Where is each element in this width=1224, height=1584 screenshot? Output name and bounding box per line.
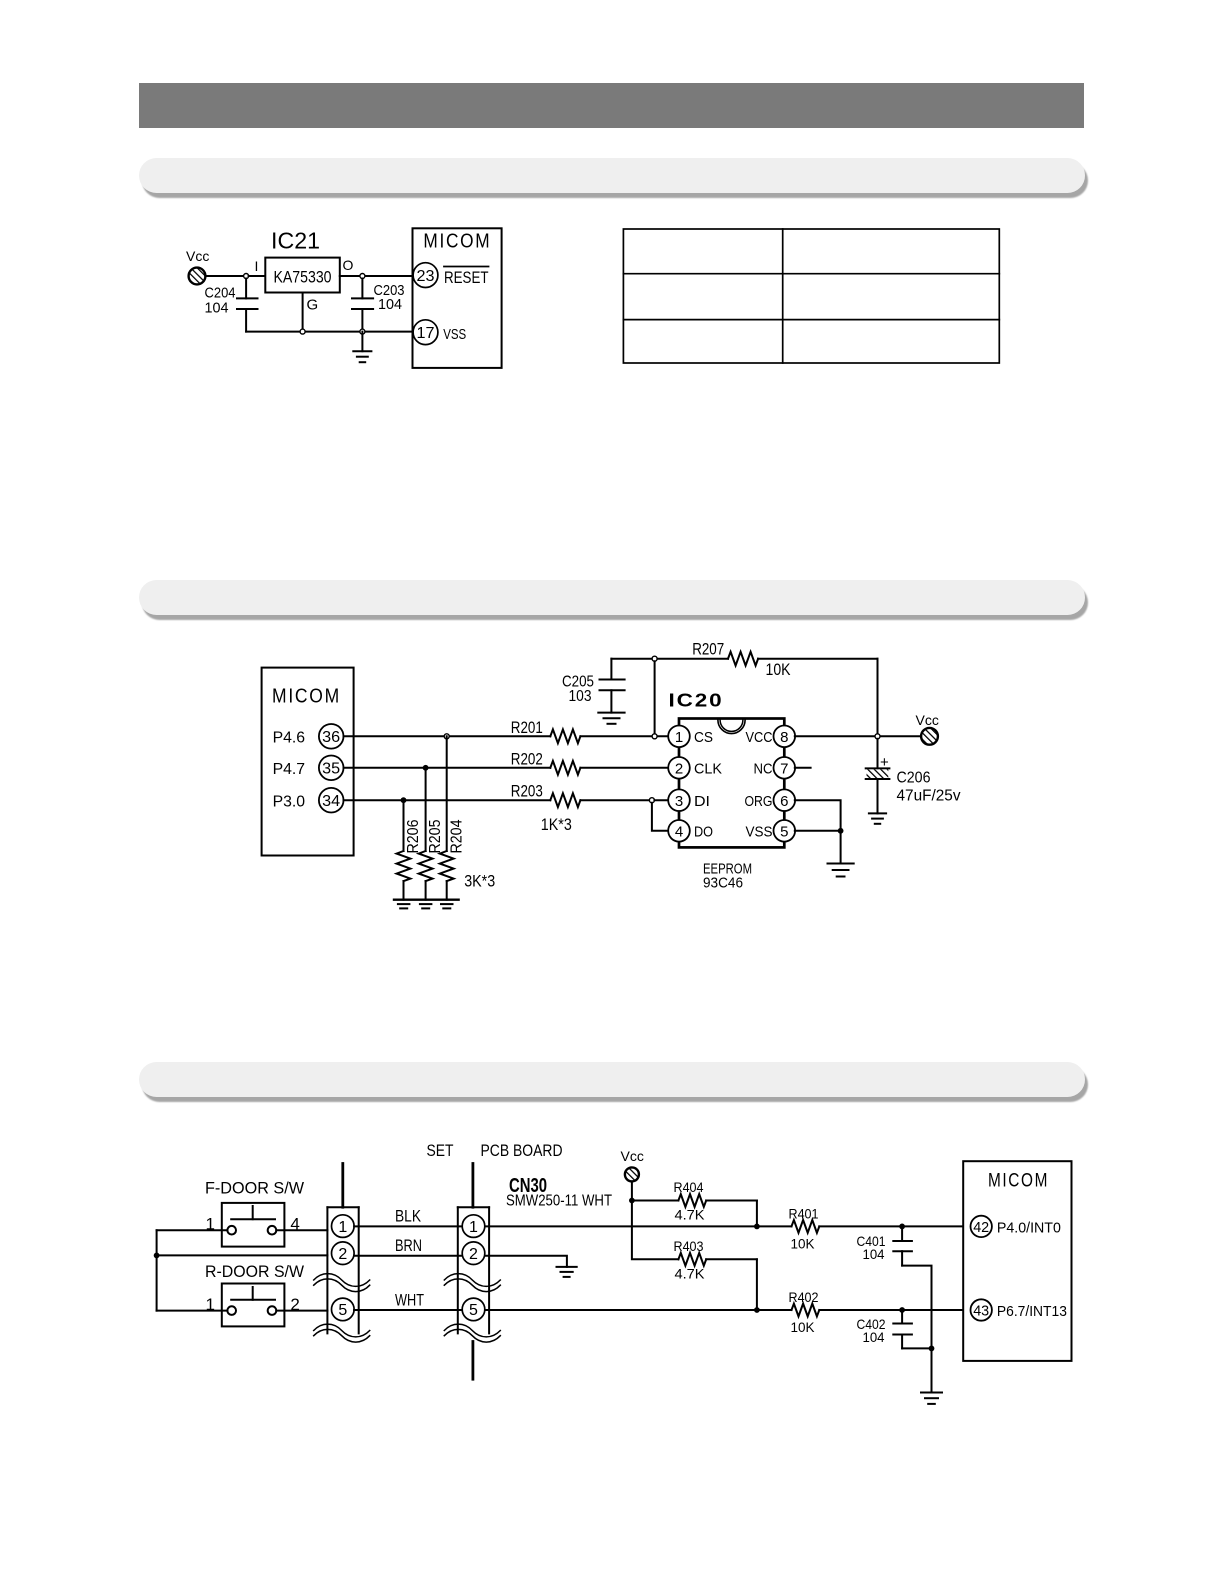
pin P3.0 (34): [273, 788, 344, 813]
svg-text:104: 104: [863, 1329, 885, 1345]
svg-text:6: 6: [780, 793, 788, 810]
svg-text:1: 1: [469, 1219, 478, 1236]
connector PCB pin 5: [462, 1298, 485, 1321]
wire BRN SET to PCB: [354, 1255, 462, 1257]
Vcc power symbol circuit2: [916, 712, 939, 745]
wire BLK PCB to R401: [485, 1225, 791, 1227]
capacitor C203: [352, 279, 405, 332]
wire P4.7 to CLK with resistor R202: [344, 761, 669, 775]
node G junction: [300, 329, 305, 334]
wire BRN to SET connector: [157, 1254, 328, 1256]
svg-text:Vcc: Vcc: [621, 1148, 644, 1164]
svg-text:5: 5: [780, 824, 788, 841]
wire C401 to ground rail: [902, 1266, 931, 1349]
wire R207 top rail: [611, 652, 877, 666]
svg-text:R205: R205: [427, 819, 444, 853]
node P3.0/R206 junction: [401, 797, 407, 803]
svg-text:P4.0/INT0: P4.0/INT0: [997, 1220, 1061, 1237]
svg-text:2: 2: [675, 761, 683, 778]
wire Vcc drop: [631, 1181, 633, 1200]
node C402 junction: [899, 1307, 905, 1313]
svg-text:4.7K: 4.7K: [675, 1207, 706, 1223]
svg-text:4.7K: 4.7K: [675, 1266, 706, 1282]
resistor R402: [789, 1289, 971, 1335]
wire P4.6 to CS with resistor R201: [344, 729, 669, 743]
svg-text:34: 34: [322, 793, 340, 810]
node CS junction: [652, 734, 657, 739]
pin 43: [971, 1299, 992, 1320]
wire DO loop to DI node: [652, 803, 669, 831]
node top rail / CS drop: [652, 656, 657, 661]
resistor R206 vertical: [397, 800, 422, 900]
ground shared below R204 R205 R206: [394, 900, 459, 909]
svg-text:CLK: CLK: [694, 761, 722, 778]
svg-text:C206: C206: [897, 770, 931, 787]
svg-text:104: 104: [205, 300, 229, 317]
wire WHT PCB to R402: [485, 1309, 791, 1311]
pin 7 NC: [754, 757, 796, 779]
svg-text:KA75330: KA75330: [274, 268, 332, 287]
wire VCC pin8 to Vcc: [795, 735, 921, 737]
connector SET pin 1: [332, 1215, 355, 1238]
node VCC junction: [875, 734, 880, 739]
svg-text:104: 104: [863, 1246, 885, 1262]
wire pull-up drop right: [877, 659, 879, 734]
resistor R205 vertical: [419, 768, 444, 900]
pin 5 VSS: [746, 820, 796, 842]
svg-text:R202: R202: [511, 750, 543, 769]
pin 42: [971, 1216, 992, 1237]
svg-text:NC: NC: [754, 761, 773, 778]
svg-text:1K*3: 1K*3: [541, 815, 572, 834]
pin 4 DO: [668, 820, 713, 842]
ground below C206: [869, 813, 886, 823]
connector PCB pin 2: [462, 1242, 485, 1265]
svg-text:103: 103: [569, 688, 592, 705]
wire IC21 output to MICOM pin23: [340, 275, 413, 277]
header bar: [139, 83, 1084, 128]
ground circuit3: [921, 1393, 942, 1404]
pin 3 DI: [668, 789, 710, 811]
connector SET side body: [327, 1164, 358, 1334]
pin 17: [413, 320, 438, 345]
svg-text:I: I: [255, 258, 259, 274]
node ground rail junction: [929, 1346, 935, 1352]
capacitor C205: [562, 659, 625, 713]
EEPROM IC20 body: [679, 719, 784, 848]
svg-text:DO: DO: [694, 824, 713, 841]
connector SET pin 5: [332, 1298, 355, 1321]
svg-text:R403: R403: [674, 1238, 704, 1254]
Vcc power symbol circuit3: [621, 1148, 644, 1181]
pin 23: [413, 263, 438, 288]
svg-text:DI: DI: [694, 793, 710, 810]
wire R-DOOR pin2 to SET connector: [276, 1310, 327, 1312]
pin 8 VCC: [746, 726, 796, 748]
connector SET pin 2: [332, 1242, 355, 1265]
node P4.7/R205 junction: [423, 765, 429, 771]
svg-text:VCC: VCC: [746, 729, 773, 746]
resistor R403: [674, 1238, 757, 1282]
switch R-DOOR S/W: [206, 1284, 300, 1327]
svg-text:MICOM: MICOM: [423, 231, 491, 253]
svg-text:10K: 10K: [791, 1319, 816, 1335]
section pill 2: [139, 580, 1085, 615]
wire ORG to VSS rail: [795, 800, 841, 828]
wire ground rail: [246, 331, 413, 333]
pin 2 CLK: [668, 757, 722, 779]
svg-text:R204: R204: [449, 819, 466, 853]
svg-text:1: 1: [338, 1219, 347, 1236]
svg-text:R404: R404: [674, 1179, 704, 1195]
capacitor C204: [205, 279, 258, 332]
wire WHT SET to PCB: [354, 1309, 462, 1311]
svg-text:17: 17: [417, 325, 435, 342]
node P4.6/R204 junction: [444, 734, 449, 739]
wire BLK SET to PCB: [354, 1225, 462, 1227]
node C401 junction: [899, 1224, 905, 1230]
svg-text:R-DOOR S/W: R-DOOR S/W: [205, 1262, 304, 1281]
svg-text:43: 43: [973, 1303, 989, 1320]
svg-text:VSS: VSS: [746, 824, 773, 841]
wire VSS to ground: [840, 834, 842, 864]
svg-text:O: O: [343, 257, 354, 273]
svg-text:R203: R203: [511, 782, 543, 801]
svg-text:104: 104: [378, 296, 402, 313]
svg-text:8: 8: [780, 729, 788, 746]
MICOM block circuit2: [262, 668, 354, 856]
svg-text:PCB BOARD: PCB BOARD: [481, 1141, 563, 1160]
wire G pin down: [302, 293, 304, 332]
wire F-DOOR pin1 to left rail: [157, 1229, 228, 1231]
svg-text:BRN: BRN: [395, 1236, 422, 1255]
svg-text:R206: R206: [405, 819, 422, 853]
Vcc power symbol: [186, 248, 209, 284]
node input junction: [244, 274, 249, 279]
svg-text:93C46: 93C46: [703, 875, 743, 892]
svg-text:P6.7/INT13: P6.7/INT13: [997, 1303, 1067, 1320]
break squiggle PCB mid: [444, 1274, 500, 1292]
wire R404 drop to BLK line: [756, 1201, 758, 1227]
wire node to IC21 input: [249, 275, 266, 277]
svg-text:R402: R402: [789, 1289, 819, 1305]
svg-text:R207: R207: [692, 640, 724, 659]
svg-text:47uF/25v: 47uF/25v: [897, 788, 961, 805]
resistor R401: [789, 1206, 971, 1252]
ground BRN: [557, 1267, 577, 1277]
switch F-DOOR S/W: [206, 1203, 300, 1247]
wire NC stub: [795, 767, 811, 769]
pin 1 CS: [668, 726, 713, 748]
wire R-DOOR pin1 to left rail: [157, 1310, 228, 1312]
svg-text:SMW250-11 WHT: SMW250-11 WHT: [506, 1193, 612, 1210]
svg-text:1: 1: [675, 729, 683, 746]
section pill 3: [139, 1062, 1085, 1097]
svg-text:IC21: IC21: [271, 228, 320, 254]
wire VSS pin5 right: [795, 830, 841, 832]
wire R403 drop to WHT line: [756, 1259, 758, 1310]
svg-text:10K: 10K: [766, 660, 792, 679]
node output junction: [360, 274, 365, 279]
capacitor C206 electrolytic: [866, 739, 961, 814]
svg-text:2: 2: [338, 1246, 347, 1263]
node VSS/ORG junction: [838, 828, 844, 834]
wire P3.0 to DI with resistor R203: [344, 793, 652, 807]
svg-text:SET: SET: [427, 1141, 454, 1160]
svg-text:5: 5: [338, 1302, 347, 1319]
wire F-DOOR pin4 to SET connector: [276, 1229, 327, 1231]
pin 6 ORG: [745, 789, 796, 811]
svg-text:R201: R201: [511, 718, 543, 737]
node Vcc/R404 junction: [629, 1198, 635, 1204]
resistor R404: [632, 1179, 757, 1223]
node DI/DO junction: [649, 798, 654, 803]
MICOM block circuit3: [963, 1161, 1071, 1361]
regulator IC21 KA75330 body: [265, 258, 340, 293]
wire ground rail down: [931, 1348, 933, 1392]
section pill 1: [139, 158, 1085, 193]
svg-text:Vcc: Vcc: [916, 712, 939, 728]
connector PCB pin 1: [462, 1215, 485, 1238]
svg-text:G: G: [307, 297, 319, 314]
node R404/BLK junction: [754, 1224, 760, 1230]
svg-text:2: 2: [469, 1246, 478, 1263]
wire CS pull-up drop: [654, 661, 656, 734]
node R403/WHT junction: [754, 1307, 760, 1313]
svg-text:7: 7: [780, 761, 788, 778]
svg-text:P3.0: P3.0: [273, 794, 306, 811]
svg-text:F-DOOR S/W: F-DOOR S/W: [205, 1179, 304, 1198]
svg-text:MICOM: MICOM: [988, 1171, 1049, 1192]
capacitor C402: [857, 1310, 912, 1348]
wire BRN PCB to ground: [485, 1256, 567, 1267]
svg-text:42: 42: [973, 1219, 989, 1236]
ground below VSS: [828, 864, 854, 877]
svg-text:CS: CS: [694, 729, 713, 746]
svg-text:IC20: IC20: [669, 691, 724, 711]
break squiggle SET bottom: [314, 1324, 370, 1342]
wire DI node to pin3: [654, 799, 668, 801]
capacitor C401: [857, 1226, 912, 1265]
svg-text:36: 36: [322, 729, 340, 746]
svg-text:5: 5: [469, 1302, 478, 1319]
node C203 junction: [360, 329, 365, 334]
svg-text:WHT: WHT: [395, 1291, 424, 1310]
wire Vcc drop to R403: [632, 1201, 679, 1260]
break squiggle PCB bottom: [444, 1324, 500, 1342]
wire Vcc to input node: [205, 275, 243, 277]
pin P4.7 (35): [273, 756, 344, 781]
svg-text:VSS: VSS: [443, 326, 466, 343]
svg-text:ORG: ORG: [745, 793, 773, 810]
ground below C205: [598, 713, 624, 724]
resistor R204 vertical: [440, 736, 466, 899]
table (empty 3x2): [623, 229, 999, 363]
svg-text:RESET: RESET: [444, 268, 489, 287]
EEPROM 93C46 label: [703, 861, 752, 892]
svg-text:23: 23: [417, 268, 435, 285]
svg-text:4: 4: [675, 824, 683, 841]
svg-text:R401: R401: [789, 1206, 819, 1222]
pin P4.6 (36): [273, 724, 344, 749]
svg-text:10K: 10K: [791, 1236, 816, 1252]
wire C402 to ground rail: [902, 1347, 931, 1349]
ground below C203: [353, 332, 371, 363]
svg-text:3K*3: 3K*3: [464, 872, 495, 891]
break squiggle SET mid: [314, 1274, 370, 1292]
svg-text:35: 35: [322, 761, 340, 778]
svg-text:P4.7: P4.7: [273, 761, 306, 778]
svg-text:Vcc: Vcc: [186, 248, 209, 264]
svg-text:BLK: BLK: [395, 1207, 422, 1226]
pin name RESET with overline: [444, 267, 489, 288]
svg-text:P4.6: P4.6: [273, 730, 306, 747]
MICOM block circuit1: [413, 228, 502, 368]
svg-text:MICOM: MICOM: [272, 686, 341, 708]
wire left rail: [156, 1230, 158, 1310]
connector PCB side body CN30: [458, 1164, 489, 1380]
node left rail / BRN junction: [154, 1253, 160, 1259]
svg-text:3: 3: [675, 793, 683, 810]
